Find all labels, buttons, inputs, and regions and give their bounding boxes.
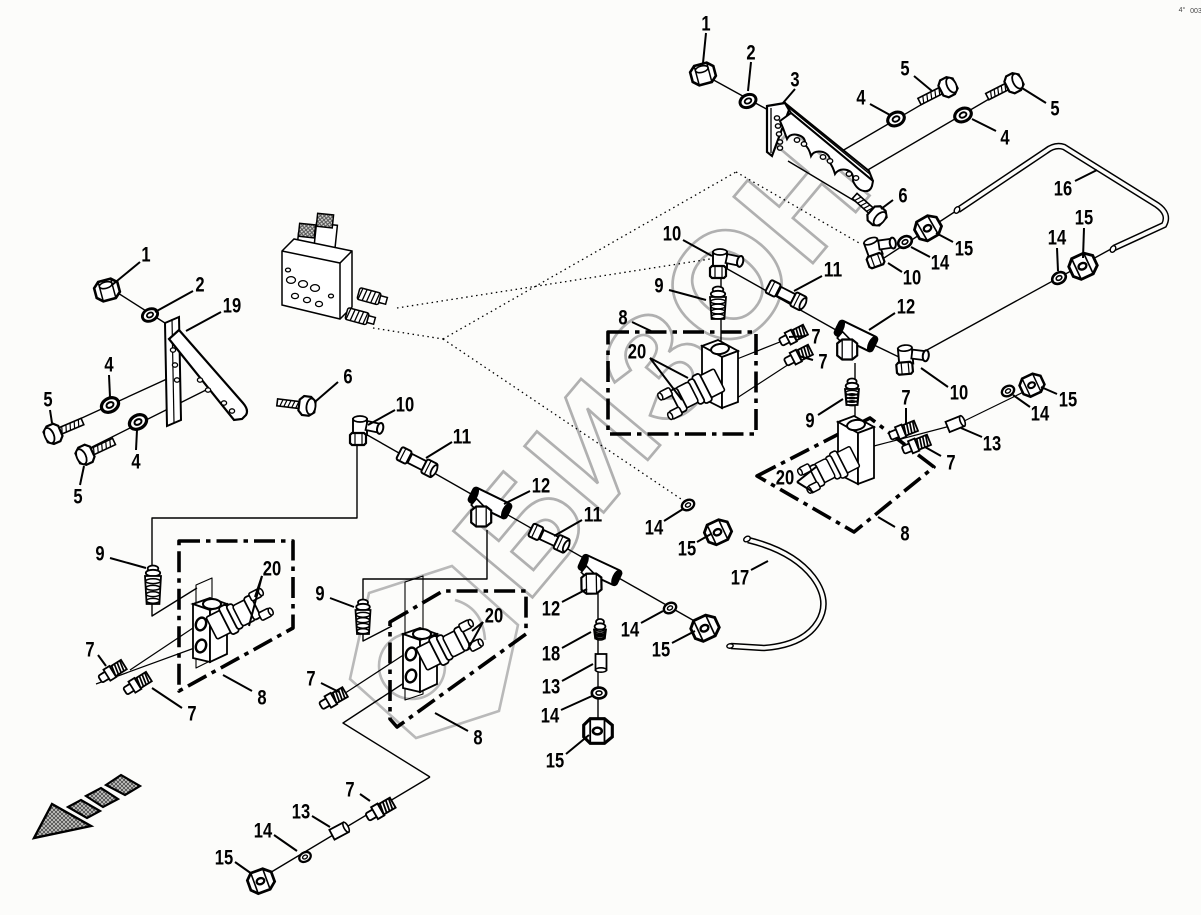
svg-text:10: 10 (396, 394, 414, 417)
svg-text:11: 11 (824, 259, 843, 282)
svg-text:7: 7 (306, 668, 315, 691)
svg-text:11: 11 (584, 504, 603, 527)
svg-text:15: 15 (652, 639, 671, 662)
svg-text:7: 7 (345, 779, 354, 802)
svg-text:7: 7 (946, 452, 955, 475)
svg-text:20: 20 (628, 341, 646, 364)
svg-text:7: 7 (187, 703, 196, 726)
svg-text:14: 14 (621, 619, 640, 642)
svg-text:15: 15 (1059, 389, 1078, 412)
svg-text:4: 4 (1000, 127, 1009, 150)
svg-text:8: 8 (618, 307, 627, 330)
svg-text:8: 8 (257, 687, 266, 710)
svg-text:7: 7 (901, 387, 910, 410)
svg-text:003: 003 (1190, 8, 1201, 15)
svg-text:4: 4 (104, 354, 113, 377)
svg-text:15: 15 (955, 238, 974, 261)
svg-text:9: 9 (95, 543, 104, 566)
svg-text:12: 12 (532, 475, 550, 498)
svg-text:15: 15 (678, 538, 697, 561)
svg-text:8: 8 (473, 727, 482, 750)
svg-text:13: 13 (292, 801, 310, 824)
svg-text:16: 16 (1054, 178, 1072, 201)
svg-text:9: 9 (654, 275, 663, 298)
svg-text:10: 10 (663, 223, 681, 246)
svg-text:14: 14 (1048, 227, 1067, 250)
svg-text:15: 15 (1075, 207, 1094, 230)
svg-text:3: 3 (790, 69, 799, 92)
svg-text:20: 20 (485, 605, 503, 628)
svg-text:20: 20 (776, 467, 794, 490)
svg-text:17: 17 (731, 567, 749, 590)
svg-text:7: 7 (811, 326, 820, 349)
svg-text:15: 15 (546, 750, 565, 773)
svg-text:19: 19 (223, 295, 241, 318)
svg-text:5: 5 (43, 389, 52, 412)
svg-text:12: 12 (897, 296, 915, 319)
svg-text:14: 14 (931, 252, 950, 275)
svg-text:13: 13 (983, 433, 1001, 456)
svg-text:13: 13 (542, 676, 560, 699)
svg-text:6: 6 (343, 366, 352, 389)
svg-text:6: 6 (898, 185, 907, 208)
svg-text:5: 5 (900, 58, 909, 81)
svg-text:4: 4 (856, 87, 865, 110)
svg-text:7: 7 (85, 639, 94, 662)
svg-text:9: 9 (805, 410, 814, 433)
svg-text:14: 14 (541, 705, 560, 728)
svg-text:1: 1 (701, 13, 710, 36)
svg-text:12: 12 (542, 598, 560, 621)
svg-text:14: 14 (254, 820, 273, 843)
svg-text:4°: 4° (1179, 6, 1186, 14)
svg-text:15: 15 (215, 847, 234, 870)
svg-text:14: 14 (1031, 403, 1050, 426)
svg-text:18: 18 (542, 643, 561, 666)
svg-text:7: 7 (818, 351, 827, 374)
svg-text:14: 14 (645, 517, 664, 540)
svg-text:1: 1 (141, 244, 150, 267)
svg-text:5: 5 (1050, 98, 1059, 121)
svg-text:20: 20 (263, 558, 281, 581)
svg-text:11: 11 (453, 426, 472, 449)
svg-text:2: 2 (746, 42, 755, 65)
svg-text:4: 4 (131, 451, 140, 474)
svg-text:8: 8 (900, 523, 909, 546)
svg-text:10: 10 (950, 382, 968, 405)
svg-text:5: 5 (73, 486, 82, 509)
svg-text:2: 2 (195, 274, 204, 297)
svg-text:10: 10 (903, 267, 921, 290)
svg-text:9: 9 (315, 583, 324, 606)
